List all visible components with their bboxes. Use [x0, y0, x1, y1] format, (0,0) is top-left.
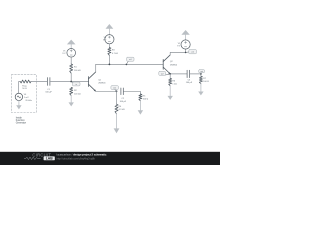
- flag vc2: [185, 52, 187, 54]
- svg-text:ve2: ve2: [161, 73, 164, 75]
- svg-text:LAB: LAB: [46, 157, 54, 161]
- wire (R6 to ground): [169, 86, 171, 96]
- wire (R4 to ground): [116, 114, 118, 129]
- svg-text:lucascarlson / design project: lucascarlson / design project 2 schemati…: [57, 152, 107, 156]
- ground (under R4): [114, 128, 120, 133]
- svg-text:vc1: vc1: [129, 59, 132, 61]
- svg-text:100 kΩ: 100 kΩ: [74, 70, 81, 72]
- wire (node to R6): [169, 74, 171, 79]
- flag vc1 (on collector rail): [126, 64, 128, 66]
- svg-text:http://circuitlab.com/c6vq4bq2: http://circuitlab.com/c6vq4bq2vq8k: [57, 157, 96, 160]
- capacitor C1: [46, 78, 48, 86]
- svg-text:100 µF: 100 µF: [45, 92, 52, 94]
- wire (V1 to R1): [70, 57, 72, 64]
- resistor R7: [199, 76, 202, 84]
- wire (C1 to Q1 base): [50, 81, 88, 83]
- svg-text:1 mV: 1 mV: [24, 97, 29, 99]
- resistor R3: [108, 48, 111, 56]
- voltage source V2: [105, 35, 114, 44]
- wire (Q2 emitter rail): [170, 73, 187, 75]
- flag in: [71, 82, 73, 83]
- sine source V4: [15, 93, 22, 100]
- wire (C3 to R7): [190, 74, 201, 76]
- power flag VCC (V1 column): [70, 44, 72, 48]
- node ve1 (junction dot): [116, 90, 118, 92]
- resistor R1: [70, 64, 73, 73]
- flag out: [200, 72, 203, 74]
- ground (under R6): [168, 96, 173, 100]
- svg-text:2N3904: 2N3904: [170, 65, 178, 67]
- power flag VCC (V2 column): [106, 24, 114, 29]
- ground (under R2): [69, 102, 74, 106]
- ground (under V4): [16, 105, 21, 109]
- resistor R5: [139, 94, 142, 101]
- node ve2 (junction dot): [169, 73, 171, 75]
- svg-text:20 kHz: 20 kHz: [25, 100, 31, 102]
- flag ve2: [166, 74, 171, 75]
- dashed enclosure (function generator box): [11, 75, 36, 113]
- svg-text:100 Ω: 100 Ω: [143, 99, 149, 101]
- transistor Q2: [163, 55, 170, 74]
- voltage source V1: [67, 49, 76, 58]
- resistor R4: [115, 104, 118, 114]
- wire (R3 to rail): [108, 55, 110, 64]
- wire (V2 to R3): [108, 44, 110, 48]
- wire (box to C1): [31, 81, 47, 83]
- power flag VCC (V3 column): [181, 30, 189, 35]
- svg-text:100 µF: 100 µF: [186, 82, 193, 84]
- svg-text:ve1: ve1: [113, 87, 116, 89]
- wire (node to R4): [116, 91, 118, 104]
- ground (under R7): [198, 92, 203, 96]
- resistor R2: [70, 87, 73, 95]
- wire (Q1 collector up): [95, 64, 97, 72]
- svg-text:in: in: [76, 84, 77, 86]
- wire (Q1 emitter rail): [96, 90, 117, 92]
- svg-text:1 kΩ: 1 kΩ: [172, 83, 177, 85]
- junction (R3/rail): [109, 64, 111, 66]
- wire (collector rail): [96, 63, 164, 65]
- voltage source V3: [181, 40, 190, 49]
- wire (C2 to R5): [124, 91, 141, 94]
- wire (source V4 top to Rsig): [19, 82, 21, 94]
- node in (junction dot): [70, 81, 72, 83]
- node out (junction dot): [200, 73, 202, 75]
- capacitor C2: [120, 88, 122, 95]
- svg-text:100 kΩ: 100 kΩ: [74, 94, 81, 96]
- svg-text:100 Ω: 100 Ω: [203, 81, 209, 83]
- resistor R6: [169, 78, 172, 85]
- svg-text:100 µF: 100 µF: [120, 101, 127, 103]
- resistor Rsig (horizontal, inside box): [20, 80, 31, 83]
- svg-text:vc2: vc2: [191, 52, 194, 54]
- svg-text:4.7 kΩ: 4.7 kΩ: [112, 53, 118, 55]
- transistor Q1: [89, 72, 96, 91]
- flag ve1: [115, 89, 117, 91]
- svg-text:Generator: Generator: [16, 121, 27, 124]
- wire (R7 to ground): [200, 84, 202, 92]
- ground (under R5): [138, 110, 143, 114]
- wire (V4 bottom): [18, 101, 20, 106]
- svg-text:2N3904: 2N3904: [98, 82, 106, 84]
- capacitor C3: [186, 70, 188, 77]
- wire (R2 to ground): [70, 96, 72, 103]
- svg-text:4.3 kΩ: 4.3 kΩ: [119, 109, 125, 111]
- footer bar: [0, 152, 220, 165]
- wire (Q2 collector up and over): [170, 49, 185, 55]
- wire (R1 to base node): [70, 73, 72, 81]
- svg-text:50 Ω: 50 Ω: [22, 88, 27, 90]
- CircuitLab logo: [24, 152, 55, 160]
- wire (R5 to ground): [139, 101, 141, 110]
